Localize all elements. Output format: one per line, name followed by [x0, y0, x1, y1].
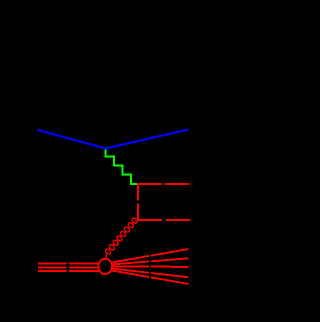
wire outgoing electron e': [106, 130, 189, 149]
fan line 3: [113, 266, 189, 268]
outgoing antiquark cbar (bottom dashed line): [138, 219, 191, 221]
incoming proton triple line: [38, 263, 99, 265]
cut gap on proton line: [66, 260, 69, 274]
fan line 5: [112, 271, 189, 285]
quark propagator (vertical dashed): [137, 184, 139, 221]
wire incoming electron e: [38, 130, 106, 149]
photon gamma (green wavy line): [106, 150, 138, 184]
proton blob: [98, 259, 112, 274]
fan line 2: [113, 258, 189, 264]
gluon coil: [104, 248, 111, 255]
proton remnant / hadron fan line 1: [112, 249, 189, 263]
outgoing quark c (top dashed line): [138, 183, 190, 185]
cut gap on fan: [149, 246, 151, 287]
fan line 4: [113, 269, 189, 278]
